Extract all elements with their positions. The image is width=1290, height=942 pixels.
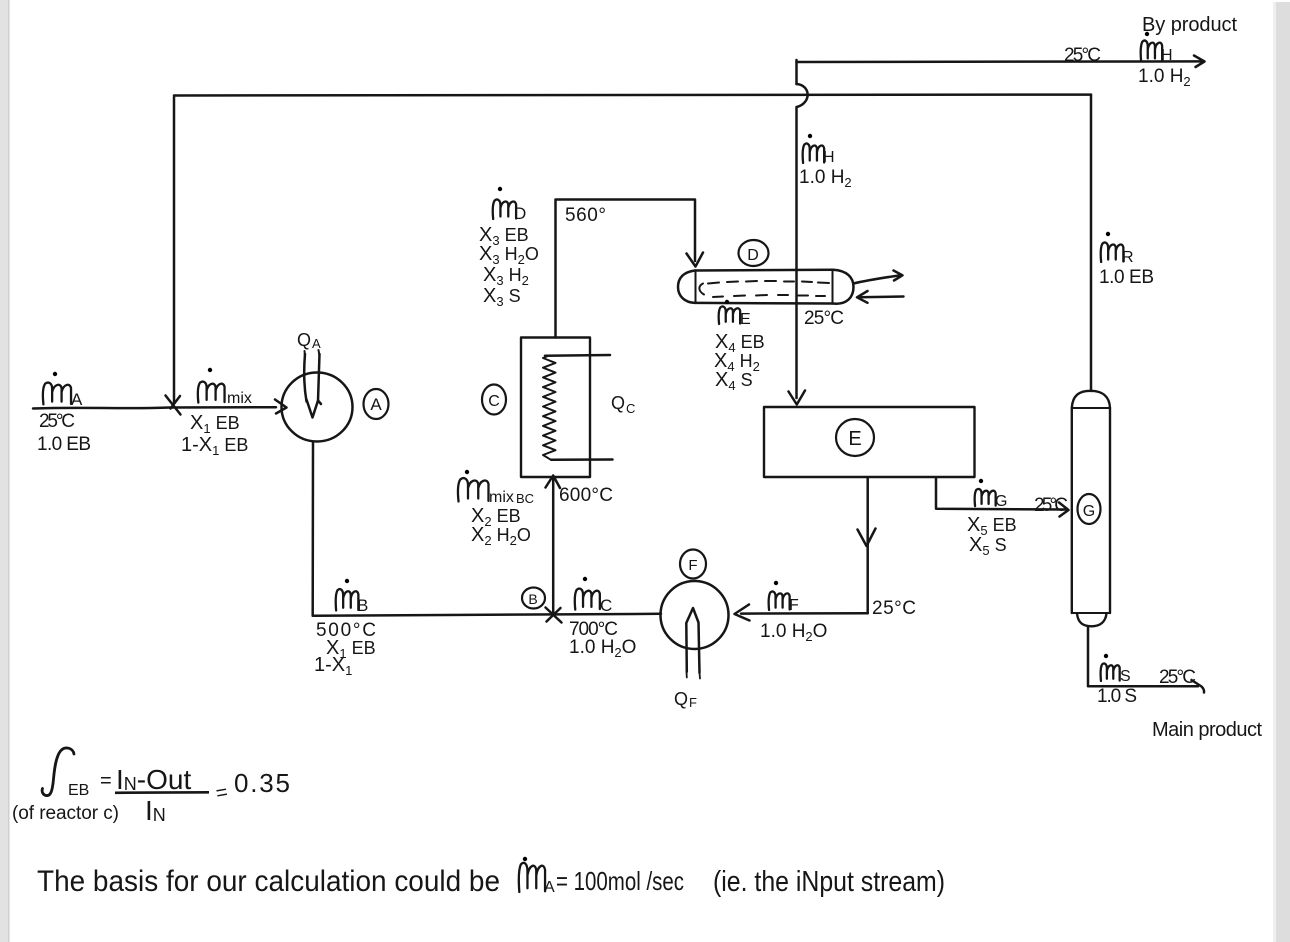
- label circle D: [739, 240, 769, 266]
- arrowhead mS right: [1192, 680, 1205, 693]
- QA duty stubs into mixer: [305, 350, 320, 356]
- wire mG outlet from E: [936, 478, 1066, 510]
- label circle F: [680, 550, 706, 579]
- wire mmixBC riser 600C into exchanger C: [552, 479, 555, 615]
- svg-text:1.0 H2: 1.0 H2: [1138, 66, 1191, 89]
- arrowhead mid mF down: [858, 529, 876, 547]
- svg-text:X1 EB: X1 EB: [190, 412, 240, 436]
- label circle C: [482, 385, 506, 415]
- reactor E box: [764, 407, 975, 477]
- wire mB down from mixer A: [311, 442, 314, 616]
- svg-text:C: C: [488, 393, 500, 410]
- svg-text:By product: By product: [1142, 14, 1237, 36]
- wire mS product line: [1088, 626, 1198, 686]
- label stream mH top: [1141, 41, 1162, 61]
- arrowhead into mixer A: [275, 400, 287, 414]
- drum D coolant out arrow: [854, 276, 900, 284]
- svg-text:1.0 H2: 1.0 H2: [799, 167, 852, 190]
- svg-text:F: F: [789, 597, 799, 614]
- arrowhead byproduct right: [1194, 56, 1205, 68]
- svg-text:=: =: [100, 770, 112, 792]
- mixer A agitator tip: [307, 400, 322, 418]
- label stream mB: [336, 589, 359, 610]
- svg-text:mix: mix: [489, 489, 514, 506]
- svg-text:E: E: [740, 311, 751, 328]
- svg-text:1.0 EB: 1.0 EB: [1099, 267, 1154, 288]
- mixer A circle: [282, 373, 353, 442]
- svg-text:A: A: [370, 395, 382, 414]
- wire stream mA inlet line: [33, 407, 276, 408]
- column G bottom weld line: [1072, 612, 1110, 614]
- left page-edge strip: [0, 0, 9, 942]
- label circle B: [522, 588, 545, 609]
- svg-text:Q: Q: [611, 393, 625, 413]
- svg-text:25°C: 25°C: [804, 308, 844, 329]
- drum D left cap: [678, 271, 695, 303]
- wire mB bottom horizontal to furnace F: [313, 614, 661, 616]
- svg-text:1.0 H2O: 1.0 H2O: [569, 637, 636, 660]
- node mix junction arrowhead: [166, 396, 181, 415]
- svg-text:The basis for our calculation: The basis for our calculation could be: [37, 865, 500, 898]
- arrowhead mH into reactor E: [789, 391, 806, 405]
- svg-text:C: C: [600, 596, 612, 615]
- svg-text:H: H: [823, 149, 835, 166]
- drum D interior left curl: [699, 284, 704, 295]
- right page-edge strip: [1276, 2, 1290, 942]
- svg-text:A: A: [544, 879, 555, 896]
- svg-text:B: B: [357, 596, 368, 615]
- svg-text:Main product: Main product: [1152, 719, 1262, 741]
- wire recycle downcomer left: [173, 97, 176, 402]
- svg-text:(of reactor c): (of reactor c): [12, 803, 119, 824]
- svg-text:C: C: [626, 401, 635, 416]
- mixer A agitator lines: [304, 354, 306, 402]
- wire mH vertical through drum D: [795, 60, 798, 398]
- label stream mH mid: [803, 144, 824, 163]
- svg-text:G: G: [1083, 503, 1095, 520]
- node B junction X mark: [546, 608, 562, 623]
- label stream mR: [1101, 243, 1124, 262]
- svg-text:1.0 H2O: 1.0 H2O: [760, 621, 827, 644]
- label stream mD: [493, 200, 516, 219]
- exchanger C coil zigzag: [543, 356, 556, 460]
- svg-text:25°C: 25°C: [1159, 667, 1196, 688]
- exchanger C coil top stub: [545, 354, 610, 357]
- column G top weld line: [1072, 407, 1110, 409]
- drum D shell top: [695, 269, 833, 272]
- svg-text:1.0 S: 1.0 S: [1097, 686, 1137, 707]
- furnace F burner spike: [686, 608, 699, 673]
- svg-text:Q: Q: [297, 330, 311, 350]
- svg-text:0.35: 0.35: [234, 768, 290, 798]
- wire byproduct top line: [797, 60, 1203, 63]
- svg-text:25°C: 25°C: [1064, 45, 1101, 66]
- svg-text:(ie. the iNput stream): (ie. the iNput stream): [713, 866, 945, 898]
- label circle A: [364, 389, 389, 419]
- svg-text:H: H: [1161, 47, 1173, 64]
- label stream mC: [575, 589, 600, 610]
- svg-text:E: E: [848, 428, 861, 450]
- label stream mE: [719, 306, 740, 324]
- label stream mF: [769, 592, 790, 610]
- column G top dome: [1072, 391, 1110, 408]
- wire mF horizontal to furnace F: [741, 612, 868, 615]
- svg-text:S: S: [1120, 668, 1131, 685]
- arrowhead mG into column G: [1059, 503, 1069, 517]
- label stream mmixBC: [458, 478, 489, 501]
- arrowhead up into C: [546, 476, 561, 489]
- QF duty stubs below furnace: [687, 672, 701, 679]
- arrowhead mF into F: [735, 605, 750, 621]
- wire mF line E bottom outlet: [866, 478, 869, 614]
- svg-text:R: R: [1122, 249, 1134, 266]
- svg-text:D: D: [747, 247, 759, 264]
- exchanger C shell box: [521, 338, 590, 478]
- drum D coolant in arrow: [859, 295, 904, 298]
- label circle G: [1078, 494, 1101, 524]
- svg-text:25°C: 25°C: [39, 411, 75, 432]
- svg-text:X2 H2O: X2 H2O: [471, 524, 531, 548]
- exchanger C coil bottom stub: [551, 458, 613, 461]
- wire recycle right downcomer to column G: [1090, 95, 1093, 391]
- svg-text:1.0 EB: 1.0 EB: [37, 434, 91, 455]
- svg-text:25°C: 25°C: [872, 598, 916, 619]
- svg-text:F: F: [688, 557, 697, 574]
- drum D shell bottom: [695, 302, 833, 305]
- label stream mmix: [198, 382, 225, 403]
- furnace F circle: [661, 581, 729, 649]
- column G right wall: [1109, 408, 1111, 613]
- svg-text:B: B: [528, 591, 537, 607]
- drum D right cap: [833, 270, 854, 304]
- wire recycle top horizontal left span: [174, 93, 1091, 96]
- label circle E: [836, 419, 874, 456]
- column G left wall: [1071, 408, 1073, 613]
- svg-text:D: D: [514, 204, 526, 223]
- wire 560deg line C top to drum D: [556, 200, 696, 338]
- label stream mS: [1101, 663, 1120, 681]
- svg-text:F: F: [689, 695, 697, 710]
- arrowhead down into drum D: [687, 253, 704, 267]
- svg-text:= 100mol /sec: = 100mol /sec: [556, 866, 684, 896]
- drum D interior dashes row1: [708, 281, 829, 284]
- wire hop bump over recycle line: [797, 84, 808, 107]
- svg-text:25°C: 25°C: [1034, 495, 1068, 516]
- svg-text:G: G: [995, 493, 1007, 510]
- svg-text:A: A: [312, 336, 321, 351]
- svg-text:EB: EB: [68, 782, 89, 799]
- svg-text:Q: Q: [674, 689, 688, 709]
- svg-text:600°C: 600°C: [559, 485, 613, 506]
- equation fEB fraction: [42, 748, 74, 796]
- label stream mA: [43, 383, 71, 405]
- column G bottom dome: [1077, 614, 1107, 627]
- svg-text:A: A: [71, 390, 83, 409]
- label stream mG: [975, 489, 996, 506]
- svg-text:mix: mix: [227, 390, 252, 407]
- svg-text:BC: BC: [516, 491, 534, 506]
- svg-text:560°: 560°: [565, 205, 606, 226]
- drum D interior dashes row2: [713, 295, 825, 297]
